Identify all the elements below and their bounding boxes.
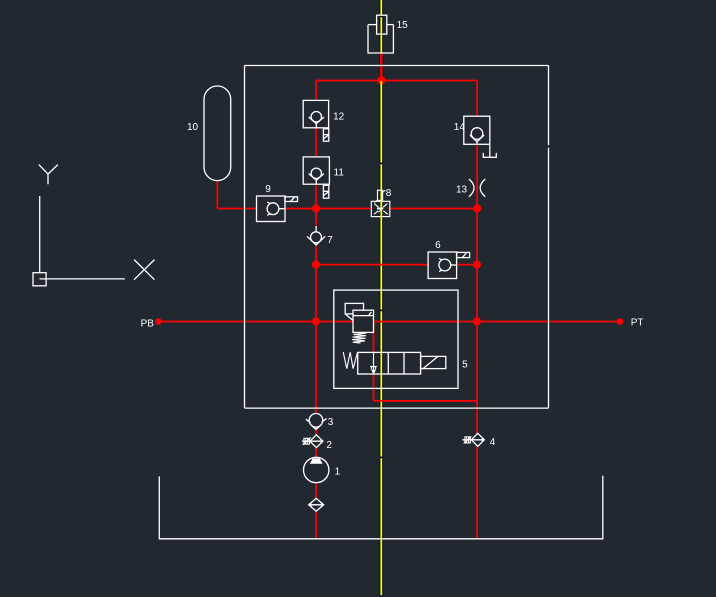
svg-text:PB: PB bbox=[141, 318, 155, 329]
svg-text:14: 14 bbox=[454, 122, 466, 133]
svg-text:11: 11 bbox=[334, 167, 345, 178]
svg-text:6: 6 bbox=[435, 240, 441, 251]
svg-text:3: 3 bbox=[328, 417, 334, 428]
svg-text:PT: PT bbox=[631, 318, 644, 329]
svg-text:1: 1 bbox=[335, 466, 341, 477]
svg-text:8: 8 bbox=[386, 188, 392, 199]
svg-text:4: 4 bbox=[490, 437, 496, 448]
svg-text:12: 12 bbox=[333, 112, 345, 123]
svg-text:9: 9 bbox=[265, 184, 271, 195]
svg-text:15: 15 bbox=[397, 20, 409, 31]
svg-text:13: 13 bbox=[456, 184, 468, 195]
svg-text:10: 10 bbox=[187, 122, 199, 133]
svg-text:5: 5 bbox=[462, 359, 468, 370]
svg-text:7: 7 bbox=[327, 235, 333, 246]
svg-text:2: 2 bbox=[326, 440, 332, 451]
